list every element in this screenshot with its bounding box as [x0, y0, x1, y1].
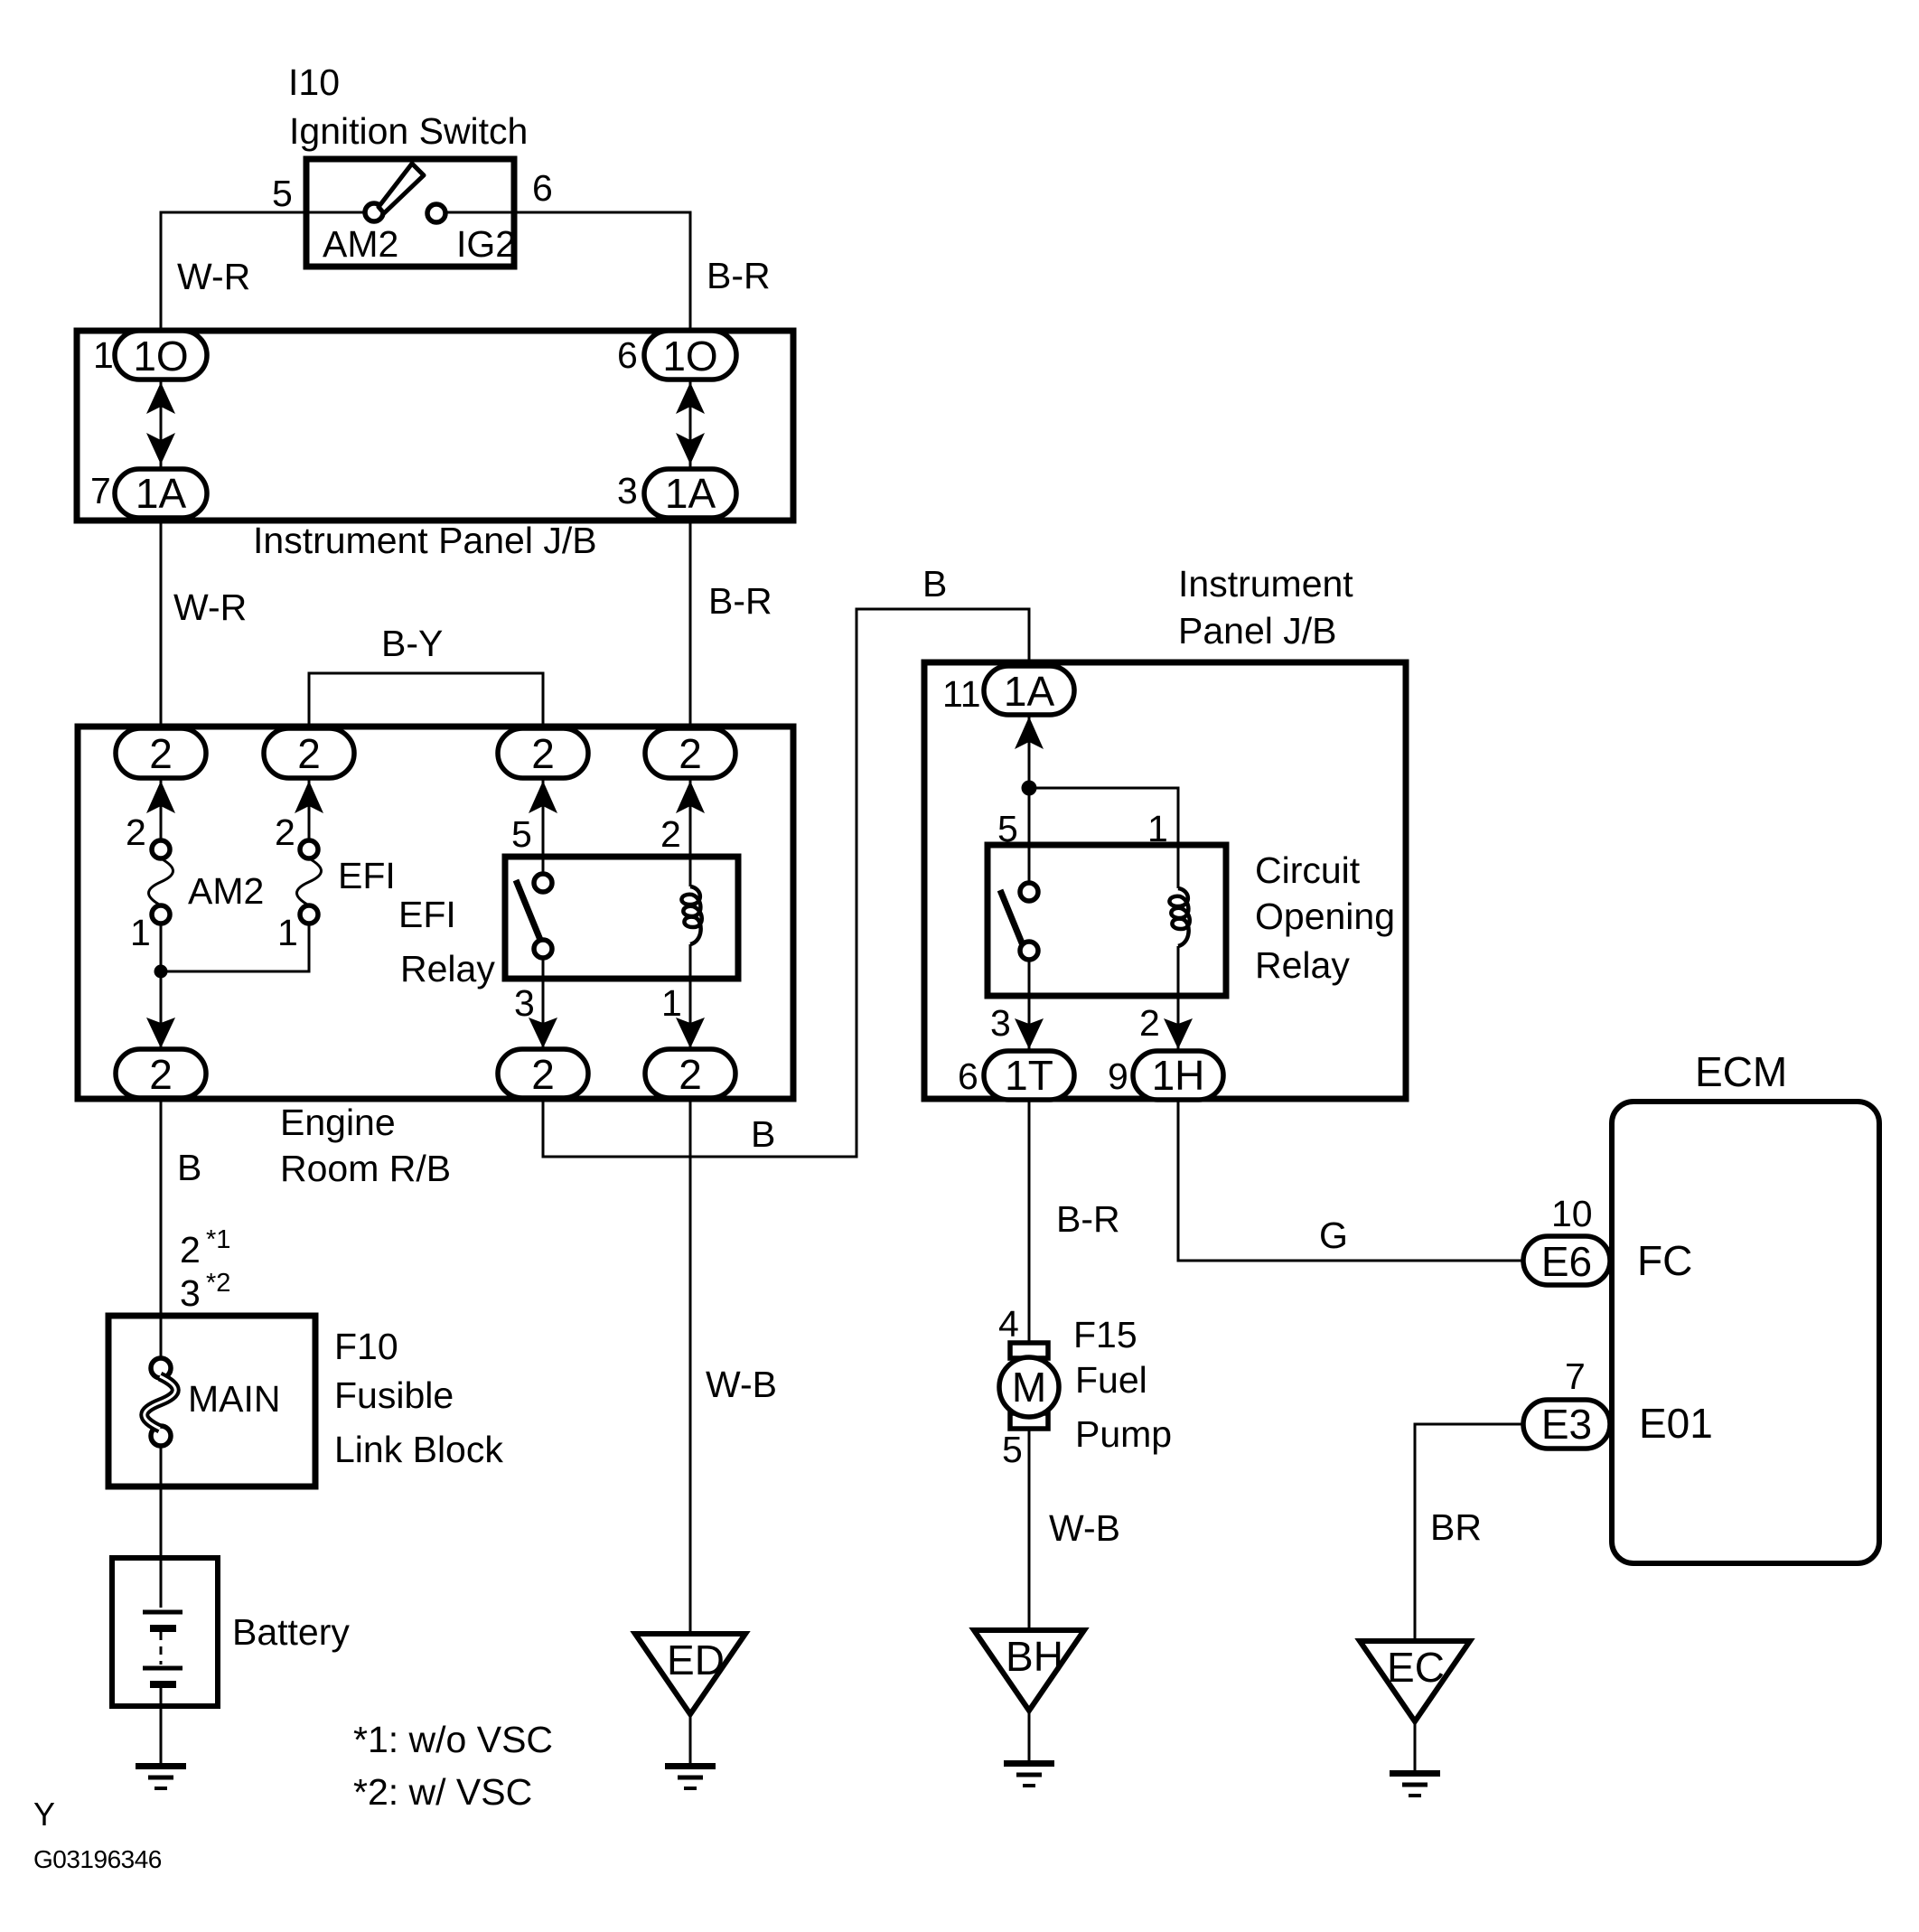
svg-text:B-R: B-R [708, 580, 772, 622]
svg-text:3: 3 [514, 982, 535, 1024]
svg-text:Room R/B: Room R/B [280, 1148, 451, 1189]
arrow up col1 [146, 781, 175, 813]
connector 1O left [115, 331, 207, 380]
svg-text:W-R: W-R [173, 586, 247, 628]
wire junction to coil [1029, 788, 1178, 888]
wire col4 (relay coil) [689, 778, 692, 886]
wire col3 (relay switch) [542, 778, 545, 874]
svg-text:EFI: EFI [338, 855, 396, 896]
wire col2 in engine box [308, 778, 311, 840]
battery plate long bottom [143, 1666, 183, 1671]
svg-text:Opening: Opening [1255, 896, 1395, 937]
svg-text:2: 2 [531, 730, 555, 777]
svg-text:E3: E3 [1541, 1401, 1592, 1448]
connector 1H [1133, 1051, 1223, 1100]
COR lever [1000, 890, 1023, 945]
svg-text:*2: w/ VSC: *2: w/ VSC [353, 1771, 532, 1813]
arrow up col2 [295, 781, 323, 813]
svg-text:BH: BH [1006, 1633, 1063, 1680]
battery internals [160, 1558, 163, 1608]
wire fuse to battery [160, 1446, 163, 1558]
connector 2 (engine bottom col1) [116, 1049, 206, 1098]
EFI relay lever [516, 880, 540, 940]
fuse AM2 [152, 840, 170, 858]
svg-text:ED: ED [667, 1637, 725, 1683]
svg-text:2: 2 [1139, 1002, 1160, 1044]
arrow down left [146, 433, 175, 464]
EFI relay box [505, 857, 738, 979]
wire col1 in engine box [160, 778, 163, 840]
svg-text:5: 5 [997, 808, 1018, 849]
fuse EFI [300, 840, 318, 858]
Circuit Opening Relay box [988, 845, 1226, 996]
arrow down 1T [1015, 1018, 1044, 1049]
EFI relay switch contacts [534, 874, 552, 892]
svg-text:Engine: Engine [280, 1102, 396, 1143]
arrow up 1A [1015, 717, 1044, 749]
ground triangle ED [635, 1634, 745, 1714]
wire battery to ground [160, 1706, 163, 1763]
svg-text:9: 9 [1108, 1055, 1128, 1097]
switch lever [379, 164, 424, 213]
arrow down right [676, 433, 705, 464]
battery plate short bottom [150, 1681, 176, 1688]
connector E3 [1523, 1400, 1610, 1449]
svg-text:1H: 1H [1152, 1052, 1205, 1099]
wire pump to BH [1028, 1429, 1031, 1630]
svg-text:1A: 1A [665, 470, 716, 517]
svg-text:1A: 1A [1004, 668, 1055, 715]
svg-text:AM2: AM2 [323, 223, 398, 265]
wire between 1O and 1A right [689, 380, 692, 468]
wire B-R: ignition pin6 to Instrument Panel J/B pin6 [445, 212, 690, 329]
connector 2 (engine bottom col4) [645, 1049, 735, 1098]
svg-text:AM2: AM2 [188, 870, 264, 912]
connector 2 (engine top col4) [645, 728, 735, 778]
wire BH to ground [1028, 1711, 1031, 1760]
svg-text:2: 2 [275, 811, 295, 853]
wire B-Y jumper [309, 673, 543, 728]
ground symbol ED [665, 1763, 716, 1790]
battery plate long top [143, 1610, 183, 1615]
svg-text:2: 2 [149, 730, 173, 777]
svg-text:1T: 1T [1005, 1052, 1053, 1099]
svg-text:2: 2 [679, 730, 702, 777]
svg-text:3: 3 [990, 1002, 1011, 1044]
svg-text:*1: w/o VSC: *1: w/o VSC [353, 1719, 553, 1760]
svg-text:FC: FC [1637, 1237, 1692, 1284]
svg-text:2: 2 [126, 811, 146, 853]
connector 2 (engine top col3) [498, 728, 588, 778]
svg-text:4: 4 [998, 1303, 1019, 1345]
connector 2 (engine bottom col3) [498, 1049, 588, 1098]
svg-text:B-R: B-R [1056, 1198, 1120, 1240]
wire battery feed col1 [160, 1099, 163, 1316]
arrow up col3 [529, 781, 557, 813]
svg-text:I10: I10 [288, 61, 340, 103]
ignition switch I10 box [306, 159, 514, 267]
svg-text:1: 1 [1147, 808, 1168, 849]
svg-text:Relay: Relay [1255, 944, 1350, 986]
fuel pump F15 [1010, 1343, 1048, 1358]
svg-text:3: 3 [617, 470, 638, 511]
svg-text:Panel J/B: Panel J/B [1178, 610, 1337, 652]
wire B-R mid [689, 521, 692, 729]
wire 1T to fuel pump [1028, 1099, 1031, 1343]
svg-text:W-B: W-B [1049, 1507, 1120, 1549]
wire B-R / W-B down to ED [689, 1099, 692, 1634]
connector 1A right JB [984, 666, 1074, 715]
svg-text:IG2: IG2 [456, 223, 516, 265]
svg-text:2: 2 [149, 1051, 173, 1098]
COR coil [1169, 888, 1189, 946]
wire junction to EFI fuse [161, 924, 309, 971]
svg-text:F10: F10 [334, 1326, 398, 1367]
arrow up col4 [676, 781, 705, 813]
svg-text:W-B: W-B [706, 1364, 777, 1405]
svg-text:B-Y: B-Y [381, 623, 443, 664]
svg-text:Battery: Battery [232, 1611, 350, 1653]
svg-text:Link Block: Link Block [334, 1429, 503, 1470]
svg-text:1: 1 [93, 334, 114, 376]
ground symbol battery [136, 1763, 186, 1790]
wire EC to ground [1414, 1721, 1417, 1770]
svg-text:2: 2 [180, 1229, 201, 1271]
ground symbol EC [1390, 1770, 1440, 1797]
connector 1T [984, 1051, 1074, 1100]
wire switch to 1T [1028, 960, 1031, 1051]
svg-text:1: 1 [277, 912, 298, 953]
svg-text:1: 1 [130, 912, 151, 953]
arrow down 1H [1164, 1018, 1193, 1049]
Instrument Panel J/B box (top) [77, 331, 793, 521]
svg-text:*1: *1 [206, 1225, 230, 1254]
svg-text:5: 5 [511, 813, 532, 855]
svg-text:6: 6 [532, 167, 553, 209]
Engine Room R/B box [78, 727, 793, 1099]
svg-text:B-R: B-R [707, 255, 771, 296]
Battery box [112, 1558, 218, 1706]
wire E3 to EC [1415, 1424, 1523, 1641]
svg-text:1O: 1O [662, 333, 717, 380]
svg-text:M: M [1012, 1364, 1046, 1411]
svg-text:Instrument Panel J/B: Instrument Panel J/B [253, 520, 597, 561]
arrow down col3 [529, 1018, 557, 1048]
wire ED to ground [689, 1714, 692, 1763]
switch contact IG2 [427, 204, 445, 222]
svg-text:ECM: ECM [1695, 1048, 1787, 1095]
wire B from engine box to right J/B [543, 609, 1029, 1157]
connector 1A right [644, 469, 736, 518]
wire into fuse [160, 1316, 163, 1358]
ground triangle EC [1360, 1641, 1470, 1721]
svg-text:Circuit: Circuit [1255, 849, 1361, 891]
arrow up right [676, 382, 705, 414]
svg-text:7: 7 [1565, 1355, 1586, 1397]
svg-text:2: 2 [297, 730, 321, 777]
svg-text:BR: BR [1430, 1506, 1482, 1548]
svg-text:Relay: Relay [400, 948, 495, 989]
arrow down col1 [146, 1018, 175, 1048]
wire between 1O and 1A left [160, 380, 163, 468]
arrow down col4 [676, 1018, 705, 1048]
svg-text:10: 10 [1551, 1193, 1593, 1234]
svg-text:6: 6 [958, 1055, 978, 1097]
battery plate short top [150, 1625, 176, 1632]
EFI relay coil [681, 886, 701, 944]
svg-text:6: 6 [617, 334, 638, 376]
wire W-R: ignition pin5 to Instrument Panel J/B pin1 [161, 212, 365, 329]
svg-text:1: 1 [661, 982, 682, 1024]
connector 1A left [115, 469, 207, 518]
svg-text:2: 2 [679, 1051, 702, 1098]
svg-text:F15: F15 [1073, 1314, 1137, 1355]
connector E6 [1523, 1236, 1610, 1285]
switch contact AM2 [365, 203, 383, 221]
svg-text:B: B [922, 563, 947, 605]
connector 1O right [644, 331, 736, 380]
svg-text:B: B [177, 1147, 201, 1188]
wire W-R mid [160, 521, 163, 729]
svg-text:Fuel: Fuel [1075, 1359, 1147, 1401]
svg-text:1O: 1O [133, 333, 188, 380]
svg-text:1A: 1A [136, 470, 187, 517]
F10 Fusible Link Block box [108, 1316, 315, 1487]
wire 1H to ECM FC [1178, 1099, 1523, 1261]
ECM box [1612, 1102, 1879, 1563]
arrow up left [146, 382, 175, 414]
ground triangle BH [974, 1630, 1084, 1711]
ground symbol BH [1004, 1760, 1054, 1787]
svg-text:G03196346: G03196346 [33, 1845, 162, 1873]
svg-text:W-R: W-R [177, 256, 250, 297]
svg-text:3: 3 [180, 1272, 201, 1314]
wire 1A down to relay [1028, 715, 1031, 883]
svg-text:*2: *2 [206, 1269, 230, 1298]
Instrument Panel J/B box (right) [924, 662, 1406, 1099]
svg-text:G: G [1319, 1215, 1348, 1256]
svg-text:11: 11 [942, 673, 981, 715]
connector 2 (engine top col1) [116, 728, 206, 778]
junction dot right J/B [1022, 781, 1037, 796]
svg-text:5: 5 [272, 173, 293, 214]
svg-text:MAIN: MAIN [188, 1378, 281, 1420]
COR switch contacts [1020, 883, 1038, 901]
svg-text:5: 5 [1002, 1429, 1023, 1470]
svg-text:Instrument: Instrument [1178, 563, 1353, 605]
svg-text:E6: E6 [1541, 1238, 1592, 1285]
svg-text:E01: E01 [1639, 1400, 1713, 1447]
svg-text:Fusible: Fusible [334, 1374, 454, 1416]
svg-text:EC: EC [1387, 1644, 1445, 1691]
svg-text:B: B [751, 1113, 775, 1155]
svg-text:Y: Y [33, 1796, 55, 1833]
svg-text:2: 2 [531, 1051, 555, 1098]
fusible link MAIN [151, 1358, 171, 1378]
connector 2 (engine top col2) [264, 728, 354, 778]
svg-text:7: 7 [90, 470, 111, 511]
svg-text:2: 2 [660, 813, 681, 855]
junction dot col1 [154, 965, 168, 979]
battery dashed link [160, 1632, 163, 1665]
wire coil to 1H [1177, 946, 1180, 1051]
svg-text:EFI: EFI [398, 894, 456, 935]
svg-text:Ignition Switch: Ignition Switch [289, 110, 528, 152]
svg-text:Pump: Pump [1075, 1413, 1172, 1455]
